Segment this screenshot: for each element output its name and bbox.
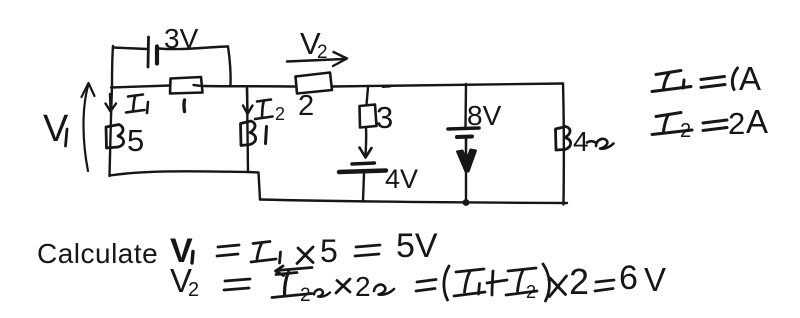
annotation: I1 = 1A [652,68,738,92]
svg-text:6: 6 [619,259,638,297]
resistor R3 box [360,105,377,128]
wire: battery loop top left segment [113,48,147,50]
wire: right vertical [562,84,565,205]
svg-text:2: 2 [188,279,199,301]
equals [595,280,614,291]
svg-text:5V: 5V [396,227,438,265]
junction tick on top wire [383,85,390,89]
wire: main top segment B [202,85,295,88]
current arrow into 4V battery (head) [360,148,372,158]
equals [416,280,436,292]
resistor R4 squiggle [556,127,571,151]
svg-text:2: 2 [300,285,311,306]
resistor R1b squiggle (middle branch) [241,121,256,146]
wire: branch3 bottom [363,174,364,202]
close paren [543,264,549,301]
svg-text:2: 2 [355,271,371,302]
wire: I2 middle branch [247,87,248,172]
script I1 [454,269,485,296]
svg-text:Calculate: Calculate [37,238,158,269]
svg-text:8V: 8V [467,100,502,131]
script I2 [506,268,537,295]
svg-text:2: 2 [317,42,328,63]
current arrow I2 [246,89,249,111]
label I1 (script I with bars) [126,95,148,114]
svg-text:2: 2 [569,261,589,302]
voltage arrow V1 (curved shaft) [84,86,89,171]
wire: left vertical (top loop side + left branch) [110,46,114,176]
plus [487,271,507,295]
wire: branch3 top [367,87,369,105]
equals [224,279,250,290]
current arrow through 8V (shaft) [465,139,468,157]
svg-text:2: 2 [680,120,691,142]
svg-text:A: A [746,103,768,140]
resistor R5 squiggle (left branch) [106,125,124,149]
battery B2 4V long plate [339,171,386,173]
resistor R2 box [296,73,333,94]
current arrow through 8V (filled head) [457,150,476,172]
wire: 8V branch bottom [465,168,467,203]
annotation: I2 = 2A [652,113,727,135]
resistor R1 inner tick [194,84,201,87]
voltage arrow V2 (shaft) [287,59,344,62]
times [550,276,567,297]
svg-text:A: A [739,60,761,97]
wire: battery loop right drop [228,47,231,86]
wire: bottom left rail [110,171,249,175]
voltage arrow V1 (head) [82,83,95,97]
svg-text:2: 2 [298,90,314,122]
label 1 under R1 box [182,100,186,112]
svg-text:5: 5 [320,233,338,269]
svg-text:3: 3 [376,100,393,135]
wire: rail step down [248,172,260,200]
times [336,279,350,293]
svg-text:4V: 4V [385,164,418,194]
battery B3 8V short plate [457,135,472,140]
battery B1 3V long plate [147,37,150,67]
wire: bottom right rail [260,200,567,204]
svg-text:2: 2 [275,104,285,124]
wire: 8V branch top [464,84,467,127]
junction dot at 8V branch and bottom rail [463,199,470,206]
battery B2 4V short plate [352,163,375,164]
wire: main top segment C [332,84,563,87]
resistor R1 box [170,77,203,94]
battery B3 8V long plate [448,128,479,129]
battery B1 3V short plate [155,47,159,64]
script I with arrow bar, subscript 2-ohm [272,266,312,298]
current arrow I1 [109,94,112,109]
open paren [444,266,449,300]
svg-text:3V: 3V [164,23,199,54]
voltage arrow V2 (head) [333,52,347,66]
current arrow into 4V battery (shaft) [364,128,367,156]
svg-text:2: 2 [728,106,745,141]
label 1 (middle squiggle value) [266,127,267,144]
wire: battery loop top right segment [159,47,228,50]
svg-text:2: 2 [526,282,536,302]
svg-text:V: V [644,261,666,298]
wire: main top segment A [111,86,170,88]
svg-text:5: 5 [127,123,144,158]
label I2 (script I with bars) [255,100,273,120]
